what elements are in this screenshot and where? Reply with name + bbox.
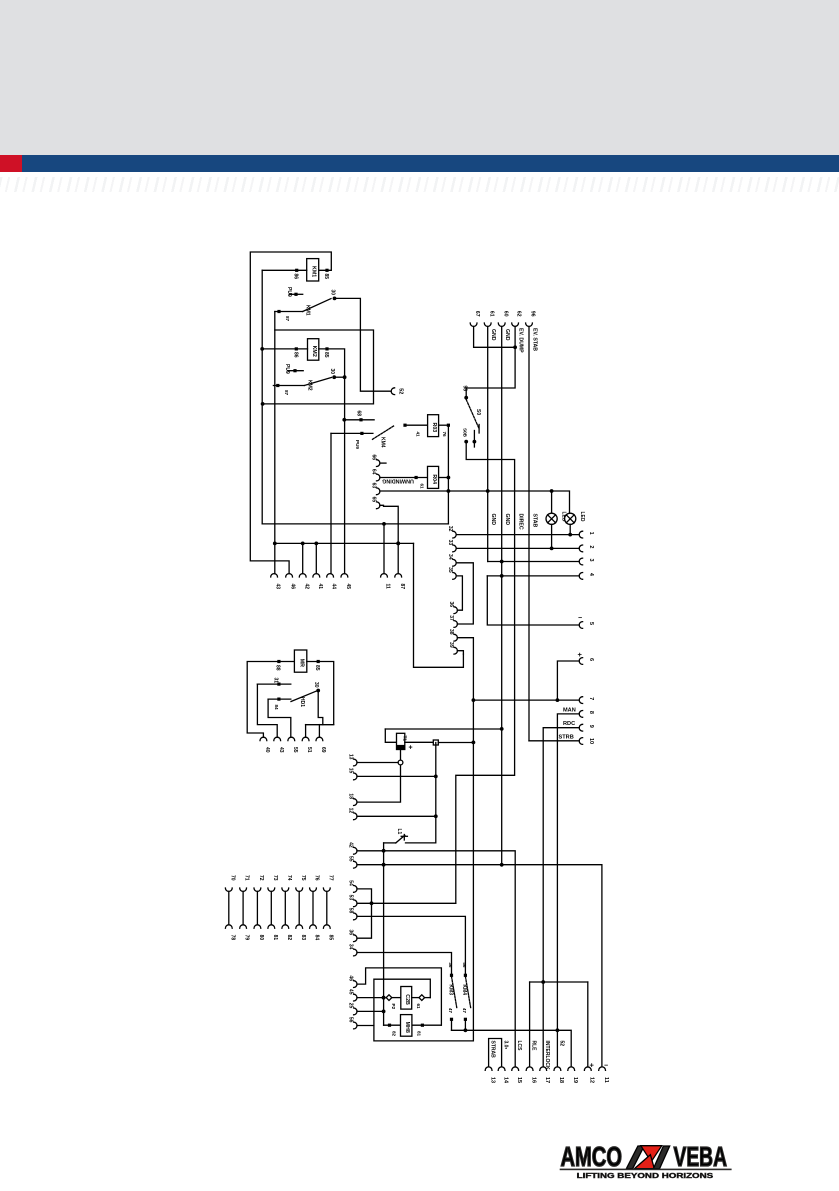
- svg-text:85: 85: [327, 935, 333, 941]
- svg-text:54: 54: [348, 880, 354, 886]
- contact HD1: [268, 682, 320, 710]
- terminal 36b: [348, 930, 357, 942]
- svg-text:15: 15: [348, 768, 354, 774]
- terminal 5 right: [579, 622, 594, 629]
- svg-text:EV. STAB: EV. STAB: [531, 328, 537, 351]
- terminal 34b: [348, 944, 357, 956]
- svg-text:PU9: PU9: [284, 364, 290, 374]
- svg-text:DIREC: DIREC: [518, 514, 524, 530]
- wire T1 top: [385, 728, 501, 730]
- svg-text:3.0▪: 3.0▪: [503, 1041, 509, 1050]
- svg-text:53: 53: [348, 895, 354, 901]
- terminal 3 right: [579, 558, 594, 565]
- terminal 10 right: [579, 738, 594, 745]
- svg-text:UNWINDING: UNWINDING: [382, 477, 414, 483]
- svg-text:R04: R04: [431, 474, 437, 484]
- svg-text:43: 43: [275, 584, 281, 590]
- wire term15L: [357, 775, 438, 779]
- svg-text:83: 83: [300, 935, 306, 941]
- svg-text:RDC: RDC: [563, 721, 575, 727]
- svg-text:36: 36: [448, 962, 453, 968]
- terminal 60 top: [498, 311, 508, 326]
- wire term46 jog: [357, 968, 441, 1025]
- svg-text:15: 15: [516, 1077, 522, 1083]
- terminal 35: [447, 567, 456, 579]
- terminal 43 row1: [271, 574, 281, 590]
- svg-text:34: 34: [447, 554, 453, 560]
- svg-text:+: +: [590, 1061, 595, 1070]
- svg-text:87: 87: [284, 390, 289, 396]
- wire row850: [357, 851, 515, 1067]
- svg-text:52: 52: [398, 388, 404, 394]
- wire term54 jog: [357, 889, 373, 938]
- wire term65 jog: [380, 505, 400, 573]
- wire term8 MAN: [557, 714, 579, 1030]
- wire KM4a to terminal: [330, 433, 332, 573]
- resistor R03: [403, 415, 450, 437]
- wire T1 left: [385, 729, 396, 742]
- svg-text:31: 31: [273, 678, 279, 684]
- wire term18 riser: [556, 1030, 558, 1067]
- wire row1025: [357, 1025, 374, 1027]
- terminal 61 top: [484, 311, 494, 326]
- svg-text:84: 84: [274, 705, 279, 711]
- svg-text:12: 12: [348, 808, 354, 814]
- svg-text:AMCO: AMCO: [561, 1141, 623, 1172]
- terminal 67 top: [470, 311, 480, 326]
- wire KM2 coil right pin: [319, 349, 347, 574]
- terminal 58b: [348, 908, 357, 920]
- svg-text:L1: L1: [396, 829, 402, 835]
- wire T1 to pad: [405, 741, 434, 743]
- terminal 66: [371, 454, 387, 466]
- wire pad down: [406, 743, 436, 843]
- terminal 53b: [348, 895, 357, 907]
- terminal 42 row1: [299, 574, 309, 590]
- terminal 2 right: [579, 545, 594, 552]
- jumper pair 75: [296, 875, 306, 940]
- terminal 32: [447, 526, 456, 538]
- wire term9 RDC: [543, 728, 579, 982]
- terminal 12L: [348, 808, 357, 820]
- terminal 19 bottom: [568, 1067, 578, 1083]
- wire HD1 out: [318, 691, 323, 725]
- svg-text:S0B: S0B: [463, 428, 468, 438]
- wire bus L1: [382, 843, 386, 1025]
- label GND c: [490, 514, 496, 526]
- contact KM3: [447, 962, 457, 1030]
- svg-text:46: 46: [290, 584, 296, 590]
- svg-text:58: 58: [348, 908, 354, 914]
- terminal 4 right: [579, 573, 594, 580]
- contact L1: [384, 829, 408, 843]
- contact KM4a: [331, 426, 394, 450]
- svg-text:35: 35: [447, 567, 453, 573]
- svg-text:47: 47: [462, 1008, 467, 1014]
- wire line3: [488, 561, 580, 563]
- svg-text:84: 84: [314, 935, 320, 941]
- terminal 7 right: [579, 697, 594, 704]
- svg-text:67: 67: [474, 311, 480, 317]
- svg-text:KM3: KM3: [447, 984, 453, 995]
- svg-text:+: +: [409, 745, 413, 752]
- wire row952: [357, 953, 452, 976]
- wire term42 drop: [302, 543, 304, 573]
- svg-text:16: 16: [530, 1077, 536, 1083]
- svg-text:85: 85: [323, 352, 329, 358]
- terminal 42b: [348, 842, 357, 854]
- red accent block: [0, 155, 22, 172]
- flag 31: [257, 678, 290, 686]
- terminal 96 top: [526, 311, 536, 326]
- wire term17 riser: [542, 982, 544, 1067]
- svg-text:64: 64: [371, 469, 377, 475]
- label UNWINDING: [382, 477, 424, 489]
- jumper pair 73: [268, 875, 278, 940]
- terminal 38: [448, 629, 457, 641]
- svg-text:43: 43: [278, 747, 284, 753]
- label DIREC: [518, 514, 524, 530]
- svg-text:77: 77: [327, 875, 333, 881]
- flag PU9 b: [284, 364, 303, 374]
- svg-text:39: 39: [448, 642, 454, 648]
- svg-text:71: 71: [244, 875, 250, 881]
- terminal 64: [371, 469, 380, 481]
- terminal 87 row1: [395, 574, 405, 590]
- svg-text:18: 18: [558, 1077, 564, 1083]
- svg-text:5: 5: [588, 622, 594, 625]
- svg-text:55: 55: [348, 856, 354, 862]
- label STRAB: [489, 1041, 495, 1059]
- contact KM4b: [461, 962, 471, 1030]
- svg-text:7: 7: [588, 697, 594, 700]
- label INTERLOCK: [544, 1041, 550, 1071]
- svg-text:GND: GND: [504, 514, 510, 526]
- svg-text:66: 66: [371, 454, 377, 460]
- terminal 33: [447, 540, 456, 552]
- wire term63 to bus: [380, 489, 570, 513]
- wire term41 drop: [315, 543, 317, 573]
- terminal 63: [371, 483, 380, 495]
- terminal 18 bottom: [554, 1067, 564, 1083]
- resistor R04: [380, 466, 449, 488]
- svg-text:73: 73: [272, 875, 278, 881]
- svg-text:33: 33: [447, 540, 453, 546]
- terminal 55b: [348, 856, 357, 868]
- wire +V top loop: [250, 252, 331, 574]
- svg-text:36: 36: [448, 601, 454, 607]
- svg-text:40: 40: [264, 747, 270, 753]
- svg-text:S0: S0: [475, 409, 481, 415]
- svg-text:10: 10: [588, 738, 594, 744]
- svg-text:87: 87: [285, 316, 290, 322]
- terminal 44 row1: [327, 574, 337, 590]
- wire row903: [357, 902, 456, 904]
- svg-text:25: 25: [348, 1003, 354, 1009]
- svg-text:75: 75: [300, 875, 306, 881]
- wire bus EVDUMP: [466, 327, 515, 389]
- relay coil MR: [275, 650, 321, 672]
- svg-text:2: 2: [588, 545, 594, 548]
- svg-text:46: 46: [348, 975, 354, 981]
- terminal 41 row1: [313, 574, 323, 590]
- svg-text:KM1: KM1: [305, 305, 311, 316]
- svg-text:17: 17: [544, 1077, 550, 1083]
- jumper pair 76: [310, 875, 320, 940]
- wire bus B1: [260, 270, 264, 524]
- terminal 40 row2: [260, 737, 270, 753]
- svg-text:3: 3: [588, 559, 594, 562]
- svg-text:4: 4: [588, 573, 594, 577]
- svg-text:+: +: [578, 650, 583, 659]
- terminal 8 right: [579, 711, 594, 718]
- wire term13L: [357, 762, 398, 764]
- wire KM2 contact out: [334, 376, 344, 378]
- bracket 13-14: [489, 1039, 502, 1067]
- svg-text:85: 85: [314, 665, 320, 671]
- wire flag31 down: [257, 684, 277, 737]
- svg-text:70: 70: [229, 875, 235, 881]
- svg-text:76: 76: [442, 432, 447, 438]
- svg-text:62: 62: [516, 311, 522, 317]
- svg-text:45: 45: [348, 989, 354, 995]
- svg-text:VEBA: VEBA: [674, 1141, 728, 1172]
- svg-text:STRB: STRB: [559, 735, 574, 741]
- terminal 1 right: [579, 531, 594, 538]
- wire term12L: [357, 814, 438, 818]
- svg-text:PU9: PU9: [355, 440, 360, 449]
- svg-text:STAB: STAB: [531, 514, 537, 528]
- svg-text:86: 86: [293, 274, 299, 280]
- wire bus EVSTAB: [528, 327, 530, 741]
- svg-text:81: 81: [272, 935, 278, 941]
- wire term12 riser: [587, 982, 589, 1067]
- svg-text:30: 30: [313, 682, 319, 688]
- terminal 16 bottom: [526, 1067, 536, 1083]
- svg-text:19: 19: [572, 1077, 578, 1083]
- label MAN: [563, 708, 576, 714]
- label GND b: [504, 329, 510, 341]
- terminal 15L: [348, 768, 357, 780]
- logo rule: [560, 1169, 732, 1171]
- svg-text:68: 68: [356, 411, 362, 417]
- svg-text:38: 38: [448, 629, 454, 635]
- terminal 45b: [348, 989, 357, 1001]
- jumper pair 77: [323, 875, 333, 940]
- svg-text:82: 82: [286, 935, 292, 941]
- svg-text:PU9: PU9: [286, 287, 292, 297]
- wire row1030: [452, 1028, 572, 1067]
- label minus b: [604, 1063, 608, 1070]
- wire KM2 coil left pin: [262, 348, 307, 350]
- svg-text:56: 56: [348, 1017, 354, 1023]
- svg-text:69: 69: [320, 747, 326, 753]
- terminal 18L: [348, 793, 357, 805]
- label STRB: [559, 735, 574, 741]
- svg-text:12: 12: [589, 1077, 595, 1083]
- svg-text:56: 56: [462, 962, 467, 968]
- svg-text:GND: GND: [490, 514, 496, 526]
- svg-text:−: −: [604, 1063, 608, 1070]
- wire term10 STRB: [529, 740, 579, 742]
- svg-text:30: 30: [330, 290, 336, 296]
- svg-text:61: 61: [420, 484, 425, 490]
- terminal 13L: [348, 754, 357, 766]
- flag PU9 a: [286, 287, 303, 297]
- terminal 13 bottom: [485, 1067, 495, 1083]
- svg-text:74: 74: [286, 875, 292, 881]
- relay coil KM1: [293, 259, 330, 281]
- terminal 25b: [348, 1003, 357, 1015]
- svg-text:RLE: RLE: [531, 1041, 537, 1052]
- wire pad to bus38: [438, 742, 474, 744]
- svg-text:14: 14: [502, 1077, 508, 1084]
- wire HD1 inner: [268, 699, 291, 737]
- terminal 34: [447, 554, 456, 566]
- jumper pair 74: [282, 875, 292, 940]
- logo mark red hourglass: [641, 1146, 662, 1162]
- jumper pair 71: [240, 875, 250, 940]
- svg-text:81: 81: [417, 1031, 422, 1037]
- lamp L2 LED: [565, 512, 585, 537]
- svg-text:MH8: MH8: [404, 1022, 410, 1033]
- label GND d: [504, 514, 510, 526]
- contact KM2: [273, 369, 336, 396]
- svg-text:82: 82: [392, 1031, 397, 1037]
- svg-text:76: 76: [314, 875, 320, 881]
- svg-text:STRAB: STRAB: [489, 1041, 495, 1059]
- switch S0: [462, 385, 482, 447]
- device T1: [397, 733, 413, 751]
- svg-text:79: 79: [244, 935, 250, 941]
- terminal 65: [371, 497, 380, 509]
- wire MR terms: [306, 725, 334, 738]
- svg-text:37: 37: [448, 615, 454, 621]
- svg-text:GND: GND: [490, 329, 496, 341]
- svg-text:47: 47: [448, 1008, 453, 1014]
- terminal 54b: [348, 880, 357, 892]
- svg-text:11: 11: [603, 1077, 609, 1083]
- wire term34-37: [456, 563, 473, 624]
- relay coil KM2: [293, 339, 330, 361]
- wire term16 riser: [529, 982, 531, 1067]
- svg-text:61: 61: [488, 311, 494, 317]
- svg-text:LED: LED: [579, 512, 585, 522]
- jumper pair 70: [225, 875, 235, 940]
- svg-text:60: 60: [502, 311, 508, 317]
- svg-text:KM2: KM2: [307, 380, 313, 391]
- diode D2 chain: [384, 1015, 441, 1037]
- wire line1: [456, 534, 579, 536]
- terminal 11 bottom: [599, 1067, 609, 1083]
- svg-text:GND: GND: [504, 329, 510, 341]
- terminal 9 right: [579, 724, 594, 731]
- wire row543 riser: [414, 543, 464, 667]
- terminal 6 right: [579, 658, 594, 665]
- svg-text:8: 8: [588, 711, 594, 714]
- wire line2: [456, 547, 579, 549]
- terminal 15 bottom: [512, 1067, 522, 1083]
- pad P1: [433, 740, 438, 745]
- svg-text:KM4: KM4: [380, 437, 386, 448]
- wire S0 to dump bus: [456, 442, 515, 904]
- terminal 62 top: [512, 311, 522, 326]
- label GND a: [490, 329, 496, 341]
- terminal 69 row2: [316, 737, 326, 753]
- svg-text:44: 44: [331, 584, 337, 590]
- label STAB: [531, 514, 537, 528]
- svg-text:KM2: KM2: [311, 346, 317, 357]
- wire line4 branch: [487, 576, 579, 625]
- svg-text:6: 6: [588, 658, 594, 661]
- terminal 17 bottom: [540, 1067, 550, 1083]
- wire row523: [262, 522, 448, 526]
- terminal 45 row1: [341, 574, 351, 590]
- svg-text:51: 51: [306, 747, 312, 753]
- wire term35-36: [456, 576, 462, 610]
- svg-text:61: 61: [416, 1004, 421, 1010]
- svg-text:52: 52: [558, 1041, 564, 1047]
- label 52b: [558, 1041, 564, 1047]
- svg-text:36: 36: [348, 930, 354, 936]
- svg-text:41: 41: [416, 432, 421, 438]
- wire row1011: [357, 1010, 384, 1012]
- wire MR loop left: [247, 662, 294, 738]
- jumper pair 72: [254, 875, 264, 940]
- wire term67 jog: [474, 327, 517, 350]
- label RAD: [503, 1041, 509, 1050]
- terminal 43 row2: [274, 737, 284, 753]
- svg-text:78: 78: [229, 935, 235, 941]
- flag 68: [344, 411, 374, 422]
- terminal 56b: [348, 1017, 357, 1029]
- diode D1 chain: [382, 987, 431, 1010]
- wire line4: [487, 575, 579, 577]
- lamp L1 LED: [546, 491, 567, 550]
- wire bus B2 to terminal: [273, 330, 277, 574]
- logo mark black slash 1: [626, 1146, 644, 1169]
- svg-text:INTERLOCK: INTERLOCK: [544, 1041, 550, 1071]
- svg-text:T1: T1: [402, 736, 408, 742]
- wire zigzag net: [263, 312, 374, 404]
- svg-text:42: 42: [303, 584, 309, 590]
- terminal 37: [448, 615, 457, 627]
- svg-text:MR: MR: [299, 659, 305, 667]
- svg-text:45: 45: [345, 584, 351, 590]
- svg-text:88: 88: [275, 665, 281, 671]
- terminal 14 bottom: [498, 1067, 508, 1084]
- svg-text:13: 13: [489, 1077, 495, 1083]
- wire bus38: [374, 638, 475, 1041]
- logo AMCO VEBA: [560, 1141, 732, 1180]
- wire row997: [357, 997, 384, 999]
- svg-text:41: 41: [317, 584, 323, 590]
- svg-text:P2: P2: [391, 1004, 396, 1010]
- svg-text:LIFTING BEYOND HORIZONS: LIFTING BEYOND HORIZONS: [577, 1171, 714, 1180]
- terminal 36: [448, 601, 457, 613]
- blue header bar: [22, 155, 839, 172]
- terminal 12 bottom: [584, 1067, 594, 1083]
- label minus t5: [578, 615, 582, 622]
- wire bus GND1: [486, 327, 490, 562]
- svg-text:11: 11: [385, 584, 391, 590]
- label plus b: [590, 1061, 595, 1070]
- wire KM1 coil pins: [262, 269, 307, 271]
- svg-text:13: 13: [348, 754, 354, 760]
- svg-text:−: −: [578, 615, 582, 622]
- wire T1 minus: [357, 750, 403, 803]
- contact KM1: [275, 290, 337, 322]
